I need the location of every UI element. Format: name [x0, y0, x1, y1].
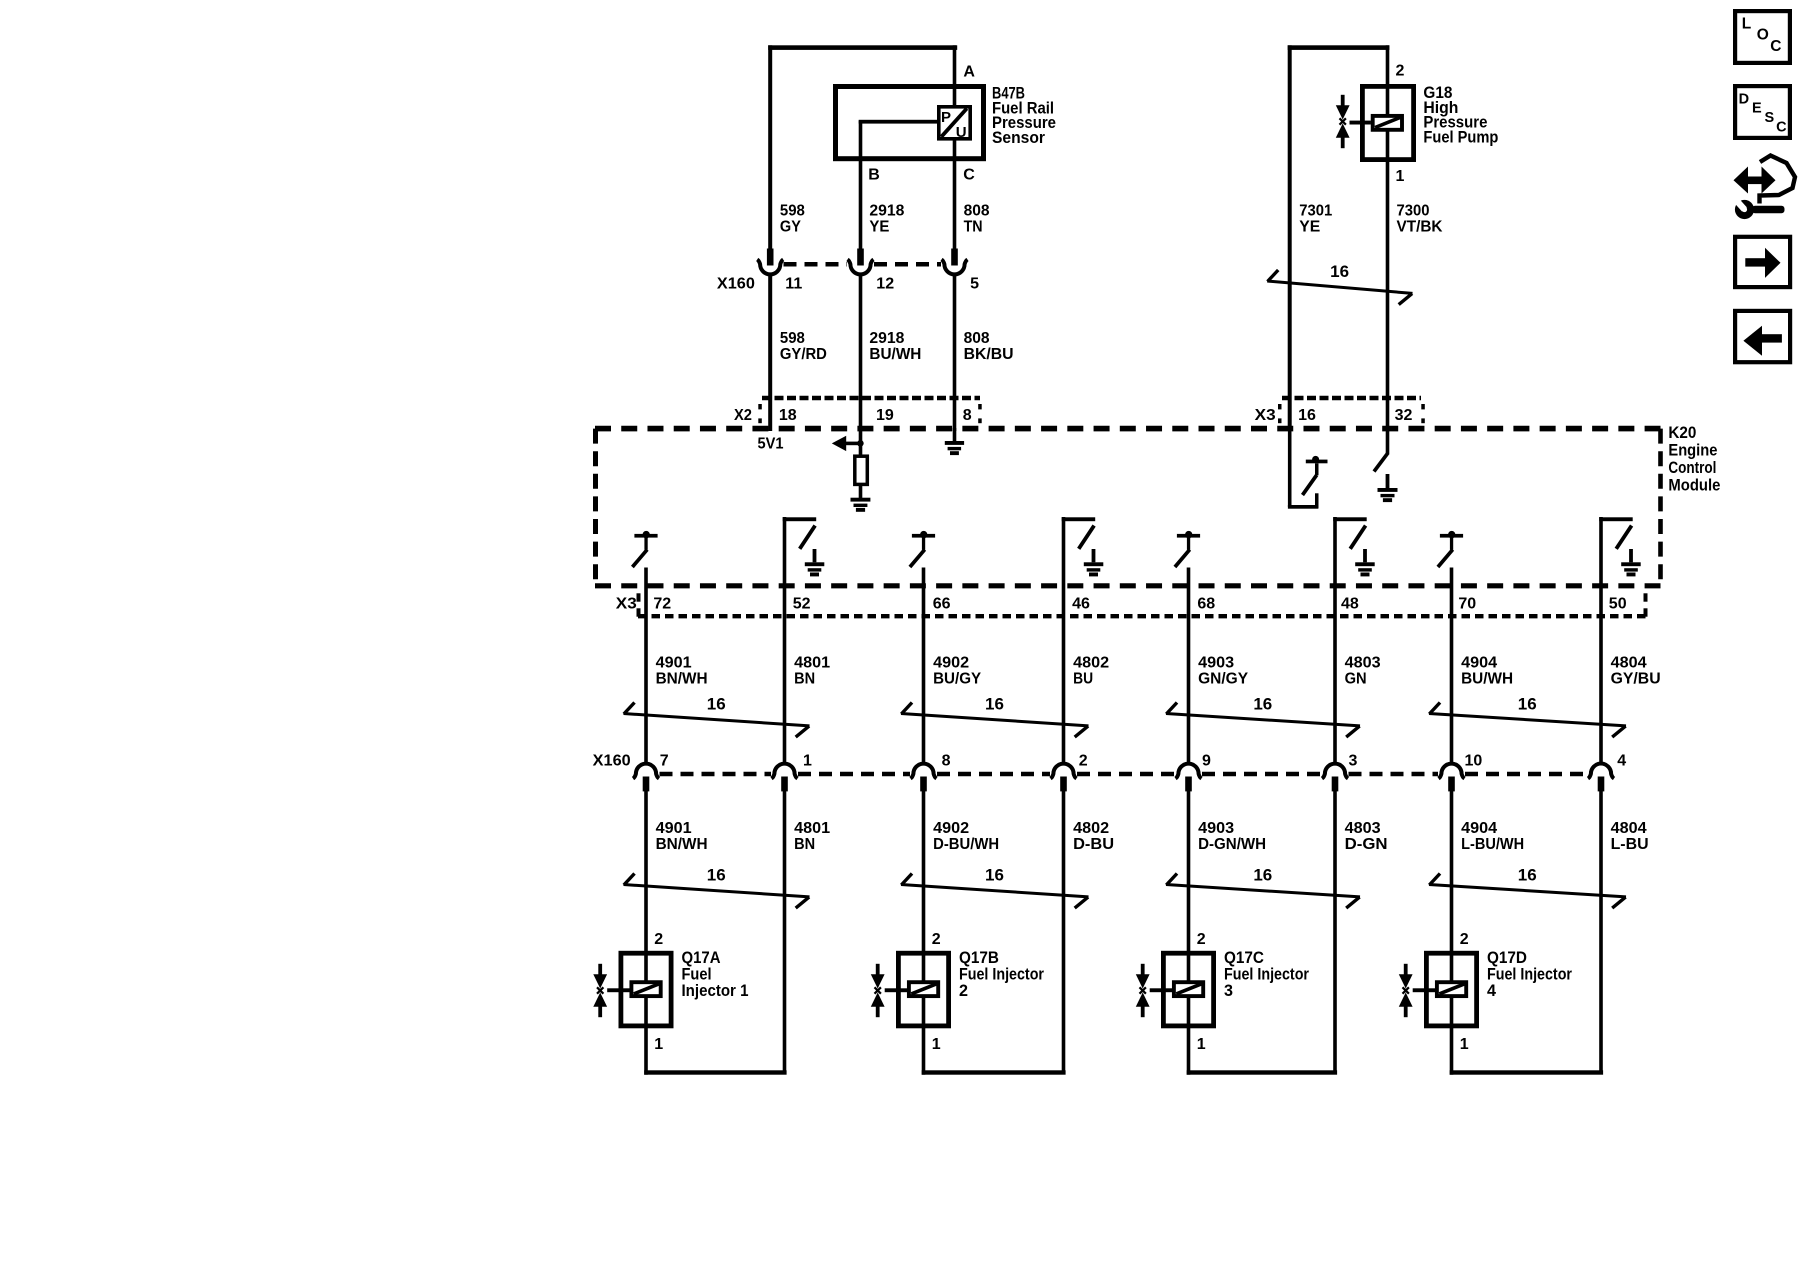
pump G18 outer box	[1362, 86, 1413, 159]
svg-text:16: 16	[707, 866, 726, 885]
P/U pressure transducer symbol	[939, 107, 970, 139]
svg-text:E: E	[1752, 101, 1762, 117]
wire 808 pin C vertical	[953, 138, 957, 249]
wire injector Q17C return loop bottom	[1187, 1070, 1337, 1074]
injector Q17A solenoid coil	[631, 982, 660, 996]
wire injector Q17D return loop bottom	[1450, 1070, 1603, 1074]
connector X160 terminal pin 8	[911, 764, 937, 779]
svg-text:7: 7	[660, 753, 669, 770]
wire 4803 GN vertical (ECM to X160)	[1333, 517, 1337, 763]
harness crossing 16 row 2 pair 1	[624, 885, 810, 897]
svg-text:32: 32	[1395, 407, 1413, 424]
svg-text:808: 808	[964, 203, 990, 220]
connector X160 terminal pin 2	[1051, 764, 1077, 779]
svg-text:2: 2	[654, 931, 663, 948]
wire 598 GY left vertical	[768, 45, 772, 249]
wire 7300 pin 2 vertical into pump	[1386, 45, 1390, 115]
svg-text:L-BU/WH: L-BU/WH	[1461, 836, 1524, 853]
wire into injector Q17B pin 2	[922, 791, 926, 981]
svg-text:1: 1	[1197, 1036, 1206, 1053]
connector X160 pin 11 terminal	[767, 249, 774, 266]
wire resistor to ground	[859, 484, 863, 498]
connector X160 terminal pin 3	[1322, 764, 1348, 779]
connector X2 left end marks	[758, 404, 762, 409]
svg-text:4802: 4802	[1073, 655, 1109, 672]
svg-text:BU/WH: BU/WH	[1461, 671, 1513, 688]
svg-text:2: 2	[1079, 753, 1088, 770]
wire X2 pin 8 to ground	[953, 428, 957, 442]
svg-text:U: U	[956, 124, 967, 141]
ECM K20 dashed box top edge	[595, 426, 1661, 432]
svg-text:GN/GY: GN/GY	[1198, 671, 1248, 688]
svg-text:4802: 4802	[1073, 820, 1109, 837]
svg-text:598: 598	[780, 203, 805, 220]
injector Q17C solenoid coil	[1174, 982, 1203, 996]
connector X160 terminal pin 1	[772, 764, 798, 779]
svg-text:Fuel Injector: Fuel Injector	[959, 964, 1044, 983]
svg-text:YE: YE	[869, 219, 889, 236]
wire 598 GY top rail from sensor pin A	[768, 45, 957, 50]
svg-text:D-GN: D-GN	[1345, 836, 1388, 853]
svg-text:P: P	[941, 109, 951, 126]
svg-text:Engine: Engine	[1668, 441, 1717, 460]
connector X160 terminal pin 10	[1439, 764, 1465, 779]
svg-text:GN: GN	[1345, 671, 1367, 688]
svg-text:4804: 4804	[1611, 820, 1647, 837]
svg-text:O: O	[1757, 27, 1769, 44]
harness crossing 16 row 2 pair 3	[1166, 885, 1360, 897]
wire 598 GY/RD	[768, 275, 772, 432]
sensor B47B outer box	[836, 87, 984, 159]
connector X3 lower dotted line	[638, 614, 1646, 618]
svg-text:4904: 4904	[1461, 820, 1497, 837]
ground internal at pin 8	[945, 441, 964, 445]
svg-text:K20: K20	[1668, 423, 1696, 442]
svg-text:VT/BK: VT/BK	[1397, 219, 1443, 236]
connector X160 terminal pin 9	[1176, 764, 1202, 779]
svg-text:2: 2	[1197, 931, 1206, 948]
svg-text:5: 5	[970, 276, 979, 293]
connector X3 upper left end marks	[1278, 404, 1282, 409]
svg-text:Fuel Injector: Fuel Injector	[1224, 964, 1309, 983]
svg-text:C: C	[1770, 38, 1781, 55]
wire 4904 BU/WH vertical (ECM to X160)	[1450, 568, 1454, 764]
svg-text:GY: GY	[780, 219, 801, 236]
svg-text:808: 808	[964, 330, 990, 347]
ECM switch-to-ground symbol for X3 pin 48	[1333, 517, 1367, 521]
svg-text:BU/GY: BU/GY	[933, 671, 981, 688]
svg-text:L-BU: L-BU	[1611, 836, 1649, 853]
svg-text:A: A	[963, 64, 975, 81]
icon next-page arrow box	[1735, 237, 1790, 287]
svg-text:Sensor: Sensor	[992, 128, 1045, 147]
svg-text:598: 598	[780, 330, 805, 347]
wire into injector Q17C pin 2	[1187, 791, 1191, 981]
ECM driver symbol for X3 pin 68	[1177, 534, 1200, 538]
connector X160 lower dashed line	[660, 772, 772, 777]
svg-text:46: 46	[1072, 596, 1090, 613]
ECM switch-to-ground symbol for X3 pin 32	[1386, 428, 1390, 455]
svg-text:X160: X160	[593, 753, 631, 770]
injector Q17B valve symbol	[876, 964, 880, 975]
svg-text:5V1: 5V1	[758, 436, 784, 453]
svg-text:S: S	[1765, 110, 1775, 126]
connector X3 lower right end marks	[1644, 593, 1648, 601]
svg-text:7301: 7301	[1299, 203, 1332, 220]
harness crossing 16 row 1 pair 3	[1166, 714, 1360, 726]
pump valve symbol	[1341, 95, 1345, 106]
svg-text:TN: TN	[964, 219, 983, 236]
svg-text:9: 9	[1202, 753, 1211, 770]
ECM switch-to-ground symbol for X3 pin 46	[1062, 517, 1096, 521]
svg-text:L: L	[1742, 16, 1751, 33]
arrow 5V1 reference pointing left	[845, 442, 859, 446]
svg-text:10: 10	[1465, 753, 1483, 770]
svg-text:Fuel Injector: Fuel Injector	[1487, 964, 1572, 983]
wire 4903 GN/GY vertical (ECM to X160)	[1187, 568, 1191, 764]
svg-text:70: 70	[1458, 596, 1476, 613]
connector X2 right end marks	[978, 404, 982, 409]
fuel injector Q17D outer box	[1426, 953, 1476, 1026]
svg-text:48: 48	[1341, 596, 1359, 613]
svg-text:16: 16	[1298, 407, 1316, 424]
wire 4901 BN/WH vertical (ECM to X160)	[644, 568, 648, 764]
svg-text:BN: BN	[794, 836, 815, 853]
svg-text:3: 3	[1224, 981, 1233, 1000]
resistor internal pull-up	[855, 456, 868, 484]
svg-text:4903: 4903	[1198, 655, 1234, 672]
wire injector Q17A pin 1 down	[644, 996, 648, 1075]
svg-text:11: 11	[785, 276, 802, 293]
svg-text:2: 2	[1396, 63, 1405, 80]
wire X2 pin 19 into ECM	[859, 428, 863, 457]
connector X160 terminal pin 4	[1588, 764, 1614, 779]
svg-text:4902: 4902	[933, 655, 969, 672]
ECM switch-to-ground symbol for X3 pin 50	[1599, 517, 1633, 521]
svg-text:7300: 7300	[1397, 203, 1430, 220]
wire 2918 BU/WH	[859, 275, 863, 432]
svg-text:52: 52	[793, 596, 811, 613]
svg-text:D-BU/WH: D-BU/WH	[933, 836, 999, 853]
connector X2 dotted line	[762, 396, 980, 401]
wire injector Q17C return vertical	[1333, 791, 1337, 1073]
svg-text:1: 1	[654, 1036, 663, 1053]
svg-text:4: 4	[1487, 981, 1497, 1000]
svg-text:50: 50	[1609, 596, 1627, 613]
svg-text:16: 16	[1253, 866, 1272, 885]
wire injector Q17A return loop bottom	[644, 1070, 786, 1074]
ground internal below resistor	[851, 498, 871, 502]
wire into injector Q17A pin 2	[644, 791, 648, 981]
harness crossing 16 row 2 pair 2	[901, 885, 1089, 897]
svg-text:GY/RD: GY/RD	[780, 346, 827, 363]
connector X3 upper right end marks	[1421, 404, 1425, 409]
wire 7300 pin 1 below solenoid	[1386, 131, 1390, 431]
svg-text:Control: Control	[1668, 458, 1716, 477]
injector Q17C valve symbol	[1141, 964, 1145, 975]
svg-text:2: 2	[959, 981, 968, 1000]
svg-text:1: 1	[1460, 1036, 1469, 1053]
wire injector Q17B pin 1 down	[922, 996, 926, 1075]
svg-text:4803: 4803	[1345, 820, 1381, 837]
svg-text:2918: 2918	[869, 330, 904, 347]
svg-text:C: C	[1776, 119, 1787, 135]
ECM K20 dashed box right edge	[1658, 429, 1663, 586]
svg-text:16: 16	[1518, 695, 1537, 714]
svg-text:BK/BU: BK/BU	[964, 346, 1014, 363]
wire 4804 GY/BU vertical (ECM to X160)	[1599, 517, 1603, 763]
svg-text:4904: 4904	[1461, 655, 1497, 672]
svg-text:4903: 4903	[1198, 820, 1234, 837]
svg-text:X3: X3	[616, 596, 637, 613]
harness crossing 16 row 2 pair 4	[1429, 885, 1626, 897]
svg-text:4: 4	[1617, 753, 1626, 770]
svg-text:16: 16	[1518, 866, 1537, 885]
ECM K20 dashed box bottom edge	[595, 583, 1661, 588]
svg-text:1: 1	[1396, 168, 1405, 185]
ECM driver symbol for X3 pin 72	[634, 534, 657, 538]
svg-text:2918: 2918	[869, 203, 904, 220]
ECM K20 dashed box left edge	[593, 429, 598, 586]
injector Q17A valve tick to coil	[607, 988, 629, 992]
svg-text:4804: 4804	[1611, 655, 1647, 672]
svg-text:8: 8	[963, 407, 972, 424]
svg-text:4901: 4901	[656, 820, 692, 837]
svg-text:Injector 1: Injector 1	[682, 981, 749, 1000]
svg-text:16: 16	[985, 695, 1004, 714]
svg-text:BN: BN	[794, 671, 815, 688]
svg-text:4801: 4801	[794, 655, 830, 672]
svg-text:19: 19	[876, 407, 894, 424]
svg-text:B: B	[868, 166, 880, 183]
wire into injector Q17D pin 2	[1450, 791, 1454, 981]
svg-text:BN/WH: BN/WH	[656, 836, 708, 853]
svg-text:18: 18	[779, 407, 797, 424]
ECM driver symbol for X3 pin 66	[912, 534, 935, 538]
pump solenoid coil symbol	[1373, 116, 1402, 130]
svg-text:72: 72	[653, 596, 671, 613]
injector Q17D valve tick to coil	[1413, 988, 1435, 992]
svg-text:1: 1	[932, 1036, 941, 1053]
svg-text:68: 68	[1197, 596, 1215, 613]
svg-text:Fuel Pump: Fuel Pump	[1423, 127, 1498, 146]
fuel injector Q17A outer box	[621, 953, 671, 1026]
wire injector Q17D pin 1 down	[1450, 996, 1454, 1075]
connector X160 terminal pin 7	[633, 764, 659, 779]
icon prev-page arrow box	[1735, 311, 1790, 362]
ECM driver symbol for X3 pin 70	[1440, 534, 1463, 538]
svg-text:C: C	[963, 166, 975, 183]
wire pin A vertical into sensor	[953, 45, 957, 107]
svg-text:4801: 4801	[794, 820, 830, 837]
icon DESC box	[1735, 86, 1790, 138]
svg-text:GY/BU: GY/BU	[1611, 671, 1661, 688]
harness crossing 16 row 1 pair 1	[624, 714, 810, 726]
pump valve tick to coil	[1350, 121, 1371, 125]
wire injector Q17D return vertical	[1599, 791, 1603, 1073]
injector Q17D solenoid coil	[1437, 982, 1466, 996]
svg-text:D: D	[1739, 91, 1749, 107]
wire 4801 BN vertical (ECM to X160)	[783, 517, 787, 763]
wire 808 BK/BU	[953, 275, 957, 432]
svg-text:BU/WH: BU/WH	[869, 346, 921, 363]
svg-text:D-BU: D-BU	[1073, 836, 1114, 853]
fuel injector Q17C outer box	[1163, 953, 1213, 1026]
svg-text:D-GN/WH: D-GN/WH	[1198, 836, 1266, 853]
injector Q17A valve symbol	[598, 964, 602, 975]
svg-text:BU: BU	[1073, 671, 1093, 688]
wire 2918 pin B vertical	[859, 121, 863, 250]
wire 7300 top rail pump pin 2	[1288, 45, 1390, 50]
svg-text:2: 2	[932, 931, 941, 948]
svg-text:X3: X3	[1255, 407, 1276, 424]
harness crossing 16 for pump wires	[1267, 281, 1412, 293]
wire injector Q17B return loop bottom	[922, 1070, 1066, 1074]
svg-text:16: 16	[985, 866, 1004, 885]
harness crossing 16 row 1 pair 4	[1429, 714, 1626, 726]
node junction dot on 2918 net	[857, 440, 864, 447]
svg-text:4902: 4902	[933, 820, 969, 837]
ECM switch-to-ground symbol for X3 pin 52	[783, 517, 817, 521]
harness crossing 16 row 1 pair 2	[901, 714, 1089, 726]
svg-text:16: 16	[707, 695, 726, 714]
connector X3 lower left end marks	[637, 593, 641, 601]
svg-text:4901: 4901	[656, 655, 692, 672]
fuel injector Q17B outer box	[898, 953, 948, 1026]
connector X160 pin 12 terminal	[857, 249, 864, 266]
wire injector Q17B return vertical	[1062, 791, 1066, 1073]
svg-text:66: 66	[933, 596, 951, 613]
svg-text:1: 1	[803, 753, 812, 770]
injector Q17D valve symbol	[1404, 964, 1408, 975]
wire 4902 BU/GY vertical (ECM to X160)	[922, 568, 926, 764]
injector Q17B valve tick to coil	[885, 988, 907, 992]
svg-text:16: 16	[1253, 695, 1272, 714]
connector X160 pin 5 terminal	[951, 249, 958, 266]
connector X160 upper dashed line	[784, 262, 848, 267]
svg-text:12: 12	[876, 276, 894, 293]
wire 4802 BU vertical (ECM to X160)	[1062, 517, 1066, 763]
injector Q17B solenoid coil	[909, 982, 938, 996]
ECM driver symbol for X3 pin 16	[1288, 428, 1292, 507]
connector X3 upper dotted line	[1282, 396, 1421, 401]
injector Q17C valve tick to coil	[1150, 988, 1172, 992]
svg-text:4803: 4803	[1345, 655, 1381, 672]
icon LOC box	[1735, 11, 1790, 63]
svg-text:8: 8	[942, 753, 951, 770]
wire injector Q17A return vertical	[783, 791, 787, 1073]
svg-text:YE: YE	[1299, 219, 1320, 236]
svg-text:X2: X2	[734, 407, 752, 424]
wire pin B horizontal inside sensor	[859, 120, 939, 124]
svg-text:X160: X160	[717, 276, 755, 293]
svg-text:2: 2	[1460, 931, 1469, 948]
wire injector Q17C pin 1 down	[1187, 996, 1191, 1075]
wire 7301 YE left vertical	[1288, 45, 1292, 431]
svg-text:3: 3	[1349, 753, 1358, 770]
svg-text:Module: Module	[1668, 475, 1720, 494]
svg-text:BN/WH: BN/WH	[656, 671, 708, 688]
icon double arrow with wrench	[1746, 177, 1765, 185]
svg-text:16: 16	[1330, 262, 1349, 281]
